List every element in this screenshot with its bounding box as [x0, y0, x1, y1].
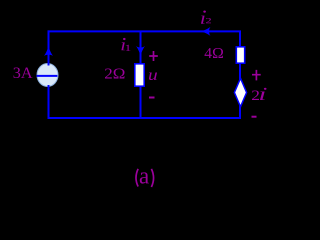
resistor R2 4ohm	[236, 47, 244, 63]
dependent source 2i (diamond)	[234, 78, 246, 107]
label plus (u)	[149, 51, 158, 61]
arrow i1 (down)	[136, 46, 145, 58]
caption (a)	[136, 169, 154, 187]
arrow i2 (left)	[199, 27, 211, 36]
wire top (node between branches)	[48, 30, 242, 32]
resistor R1 2ohm	[135, 64, 144, 86]
label minus (2i)	[252, 116, 257, 118]
current source arrow (up)	[44, 44, 53, 57]
label minus (u)	[149, 97, 155, 99]
label 2i	[252, 88, 266, 100]
label 4ohm	[205, 48, 223, 58]
wire middle branch	[140, 31, 142, 118]
current source bar	[37, 75, 58, 77]
label u	[149, 72, 157, 79]
label i2	[201, 11, 211, 24]
label i1	[121, 38, 130, 51]
label 3A	[14, 67, 33, 78]
wire bottom	[48, 117, 242, 119]
wire right branch	[239, 31, 241, 118]
wire left vertical lower	[48, 85, 50, 118]
wire left vertical upper	[48, 30, 50, 65]
label plus (2i)	[252, 70, 261, 81]
current source I1 3A (circle)	[37, 64, 58, 87]
wire stubs into source circle	[48, 63, 50, 88]
label 2ohm	[105, 68, 125, 78]
